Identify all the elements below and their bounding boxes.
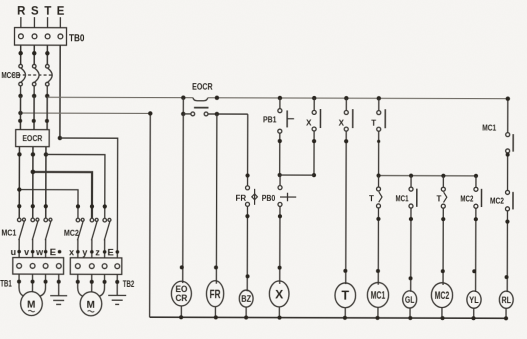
contact T instantaneous xyxy=(377,96,381,100)
wire to MC1 coil xyxy=(377,208,379,285)
contact MC1 aux to GL xyxy=(410,176,412,187)
wire T EOCR to MC1 xyxy=(45,147,47,219)
relay EOCR main box xyxy=(16,130,50,147)
wire R to control lower rail xyxy=(20,112,150,114)
breaker MCCB pole R xyxy=(19,64,26,95)
wire PB0 to X coil xyxy=(279,206,281,283)
scan texture xyxy=(0,0,1,1)
wire between right contacts xyxy=(507,153,509,190)
junction dots below EOCR box xyxy=(17,152,21,156)
wire E TB0 down xyxy=(59,45,61,138)
contactor MC2 pole x xyxy=(76,218,84,258)
wire FR contact to BZ xyxy=(246,206,248,291)
wire T TB0 to MCCB xyxy=(46,45,48,64)
wire to GL lamp xyxy=(410,208,412,292)
junction dots at terminal labels xyxy=(17,250,119,254)
wire R branch to MC2 x xyxy=(19,190,78,219)
terminal block TB1 xyxy=(13,258,64,275)
wire S EOCR to MC1 xyxy=(32,147,34,219)
contact T delayed to MC2 xyxy=(442,176,444,187)
wire PB1 to join xyxy=(279,133,281,175)
wire T contact to sub bus xyxy=(378,131,380,175)
contactor coil MC1 xyxy=(367,282,388,307)
wire S TB0 to MCCB xyxy=(33,45,35,64)
wires TB2 to motor with dots xyxy=(78,274,83,296)
motor M1 xyxy=(21,292,43,316)
wire to YL lamp xyxy=(475,208,477,292)
contactor MC2 pole y xyxy=(90,218,98,258)
contact EOCR NO aux row xyxy=(182,98,184,114)
breaker MCCB pole S xyxy=(32,64,39,95)
pushbutton PB0 NC xyxy=(279,175,281,186)
pushbutton PB1 xyxy=(278,96,282,100)
contact X holding xyxy=(312,96,316,100)
contact FR flicker xyxy=(246,186,250,190)
wire R EOCR to MC1 xyxy=(18,147,20,219)
contactor MC2 pole z xyxy=(103,218,111,258)
junction dots above MCCB xyxy=(18,51,22,55)
contact X timer feed xyxy=(344,96,348,100)
motor M2 xyxy=(80,292,102,316)
wire X contact to T coil xyxy=(345,131,347,284)
junction dots above MC2 contacts xyxy=(76,204,80,208)
buzzer BZ xyxy=(239,290,253,307)
wire S branch to MC2 y xyxy=(33,172,92,219)
relay coil X xyxy=(269,281,289,307)
wire bottom control bus xyxy=(150,317,507,318)
junction dots bottom bus xyxy=(179,315,508,320)
lamp GL xyxy=(403,291,417,308)
terminal block TB0 xyxy=(14,28,66,46)
terminal block TB2 xyxy=(70,258,122,275)
wire T branch to MC2 z xyxy=(46,154,105,218)
ground G1 xyxy=(50,296,67,305)
node E junction dot xyxy=(58,136,62,140)
wire E branch to TB2 xyxy=(60,138,118,258)
wire R TB0 to MCCB xyxy=(20,45,22,64)
wire sub bus xyxy=(379,175,476,177)
wire E lead-in xyxy=(59,17,61,27)
wire right edge drop xyxy=(507,99,509,133)
contact EOCR NC on top bus xyxy=(181,95,185,99)
contactor coil MC2 xyxy=(431,283,452,308)
contact MC1 aux right xyxy=(506,133,510,137)
wire S lead-in xyxy=(33,17,35,27)
wire R lead-in xyxy=(20,17,22,27)
wire FR coil feed xyxy=(215,114,218,284)
wire R into EOCR xyxy=(19,96,21,130)
ground G2 xyxy=(108,295,126,304)
wire PB1 X join xyxy=(280,174,314,176)
contactor MC1 pole u xyxy=(17,218,25,258)
wire X holding to join xyxy=(313,131,315,175)
timer coil T xyxy=(335,283,356,308)
MCCB linkage dashed xyxy=(12,74,51,76)
contactor MC1 pole w xyxy=(44,218,52,258)
wire EOCR coil feed xyxy=(182,114,185,283)
lamp YL xyxy=(467,291,481,308)
wire T lead-in xyxy=(47,17,49,27)
breaker MCCB pole T xyxy=(45,64,52,95)
wire top control bus from T xyxy=(47,96,193,98)
contactor MC1 pole v xyxy=(31,218,39,258)
wire control lower rail drop xyxy=(149,113,152,317)
wires TB1 to motor with dots xyxy=(19,274,24,296)
lamp RL xyxy=(499,291,513,308)
wire S into EOCR xyxy=(33,96,35,130)
wire to MC2 coil xyxy=(442,208,444,285)
wire BZ branch drop xyxy=(247,114,249,186)
contact T delayed to MC1 xyxy=(378,176,380,187)
contact MC2 aux right xyxy=(506,190,510,194)
contact MC2 aux to YL xyxy=(475,176,477,187)
relay coil EOCR xyxy=(171,281,191,306)
wire T into EOCR xyxy=(46,97,48,129)
junction dots above EOCR box xyxy=(18,119,22,123)
junction dots below MCCB xyxy=(18,94,22,98)
wire to RL lamp xyxy=(506,211,508,292)
junction dots above MC1 contacts xyxy=(17,204,21,208)
relay coil FR xyxy=(206,281,223,307)
